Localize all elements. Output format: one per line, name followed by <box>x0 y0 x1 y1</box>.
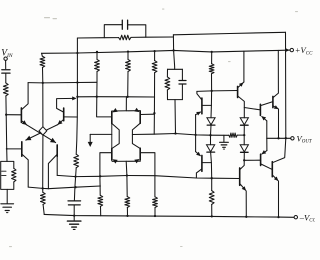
terminal +Vcc <box>286 48 289 51</box>
capacitor C3 (tail) <box>68 200 81 202</box>
wire comp box top <box>168 68 183 70</box>
wire column to line A <box>74 168 76 201</box>
ground GND2 <box>220 141 229 143</box>
wire right vertical x~285 (top rail to VOUT node) <box>285 32 287 138</box>
wire R3 column to diamond <box>42 83 44 127</box>
wire feedback line y~37 <box>77 37 118 39</box>
ground GND3 <box>67 220 81 222</box>
transistor Q11 (bias npn) <box>237 86 239 97</box>
resistor R4 (x~97 from rail) <box>96 52 98 60</box>
wire input column <box>6 96 7 161</box>
transistor Q4 (input quad lower-right) <box>56 145 58 157</box>
wire crossover diagonal Q1-Q4 <box>27 125 56 143</box>
resistor R5 (x~128 from rail) <box>127 52 129 60</box>
wire arrow tap <box>90 133 112 135</box>
wire quad bottom stub <box>125 161 128 175</box>
wire quad top stub <box>125 97 127 111</box>
resistor R8 (x~211 from rail) <box>211 52 213 64</box>
terminal VOUT <box>291 137 294 140</box>
wire D4 to node <box>243 152 245 160</box>
wire tail bus line A y~176 <box>57 175 239 178</box>
transistor Q16 (output npn bottom) <box>271 162 273 177</box>
resistor R13 (x~155) <box>154 176 156 197</box>
wire bottom -Vcc rail <box>44 214 294 217</box>
node crossover diamond <box>39 127 47 135</box>
wire rail ground stub <box>73 216 75 221</box>
wire D1-D2 <box>210 125 213 145</box>
wire diamond to line B <box>42 135 44 188</box>
transistor Q12 (sink npn) <box>239 168 241 185</box>
resistor R12 (x~127) <box>126 176 128 197</box>
capacitor C2 (comp box right) <box>181 69 183 80</box>
wire VIN to C1 <box>5 60 7 68</box>
wire +Vcc rail (y~51) <box>42 50 290 53</box>
wire comp box to mid bus <box>174 100 177 134</box>
diode D3 <box>240 118 248 125</box>
transistor Q3 (input quad lower-left) <box>21 142 23 156</box>
wire driver bus y~90 <box>197 90 238 93</box>
transistor Q6 (mid quad upper-right) <box>139 111 141 123</box>
wire feedback column x~77 <box>76 38 77 154</box>
wire C3 to rail <box>73 205 75 215</box>
diode D4 <box>240 145 248 152</box>
wire ground stub mid <box>223 135 225 142</box>
transistor Q10 (driver pnp lower) <box>201 155 203 171</box>
junction dots <box>76 52 78 54</box>
resistor R15 (feedback column) <box>74 154 79 168</box>
wire quad waist <box>112 124 119 149</box>
diode D2 <box>207 145 215 152</box>
ground GND1 <box>1 203 14 205</box>
wire mid bus y~134 <box>132 134 228 136</box>
wire diode column upper <box>210 91 213 118</box>
wire D2 to line A <box>211 152 212 178</box>
capacitor Cf (feedback, top) <box>104 25 122 38</box>
wire comp box bottom <box>168 99 183 101</box>
transistor Q5 (mid quad upper-left) <box>111 111 113 123</box>
current arrow symbol <box>88 142 93 147</box>
terminal VIN <box>4 57 7 60</box>
resistor R11 (x~100) <box>99 176 101 195</box>
resistor R10 (x~211 bottom) <box>211 178 213 190</box>
wire quad common emitter top <box>112 110 140 112</box>
terminal -Vcc <box>294 216 297 219</box>
wire top rail connector x~173 <box>173 35 174 70</box>
capacitor C1 (input coupling) <box>2 69 10 71</box>
wire D3-D4 <box>243 125 245 145</box>
wire VOUT line <box>267 137 291 139</box>
wire quad left base join <box>111 124 113 149</box>
transistor Q14 (output npn top) <box>272 96 274 107</box>
resistor R3 (x~43 from rail) <box>41 53 44 56</box>
transistor Q8 (mid quad lower-right) <box>139 148 141 160</box>
resistor R9 (inline y~135) <box>229 133 237 137</box>
transistor Q1 (input quad upper-left) <box>20 108 22 123</box>
wire quad common emitter bottom <box>112 160 140 162</box>
transistor Q9 (driver pnp upper) <box>201 98 203 114</box>
wire crossover diagonal Q2-Q3 <box>26 125 58 141</box>
wire top feedback rail (y~33) <box>173 32 285 35</box>
node input-T1 base <box>5 114 7 116</box>
transistor Q13 (output pnp driver) <box>259 104 261 115</box>
transistor Q15 (output pnp bottom driver) <box>260 154 262 165</box>
node input-T3 base <box>6 148 8 150</box>
resistor R1 (input series) <box>3 83 8 96</box>
resistor R14 (x~43 bottom) <box>42 188 44 192</box>
transistor Q7 (mid quad lower-left) <box>111 148 113 160</box>
resistor R6 (x~155 from rail) <box>154 51 156 61</box>
wire bus line B y~187 <box>28 186 100 189</box>
resistor R7 (comp box left) <box>166 69 168 77</box>
diode D1 <box>207 118 215 125</box>
signal source box <box>7 161 14 168</box>
wire box to ground <box>6 189 8 203</box>
wire collector bus y~82 <box>28 81 97 84</box>
wire mirror bus y~97 <box>77 96 154 98</box>
transistor Q2 (input quad upper-right) <box>63 108 65 121</box>
wire R4 column down <box>97 82 112 117</box>
resistor Rf (feedback, inline y~37) <box>119 35 131 40</box>
